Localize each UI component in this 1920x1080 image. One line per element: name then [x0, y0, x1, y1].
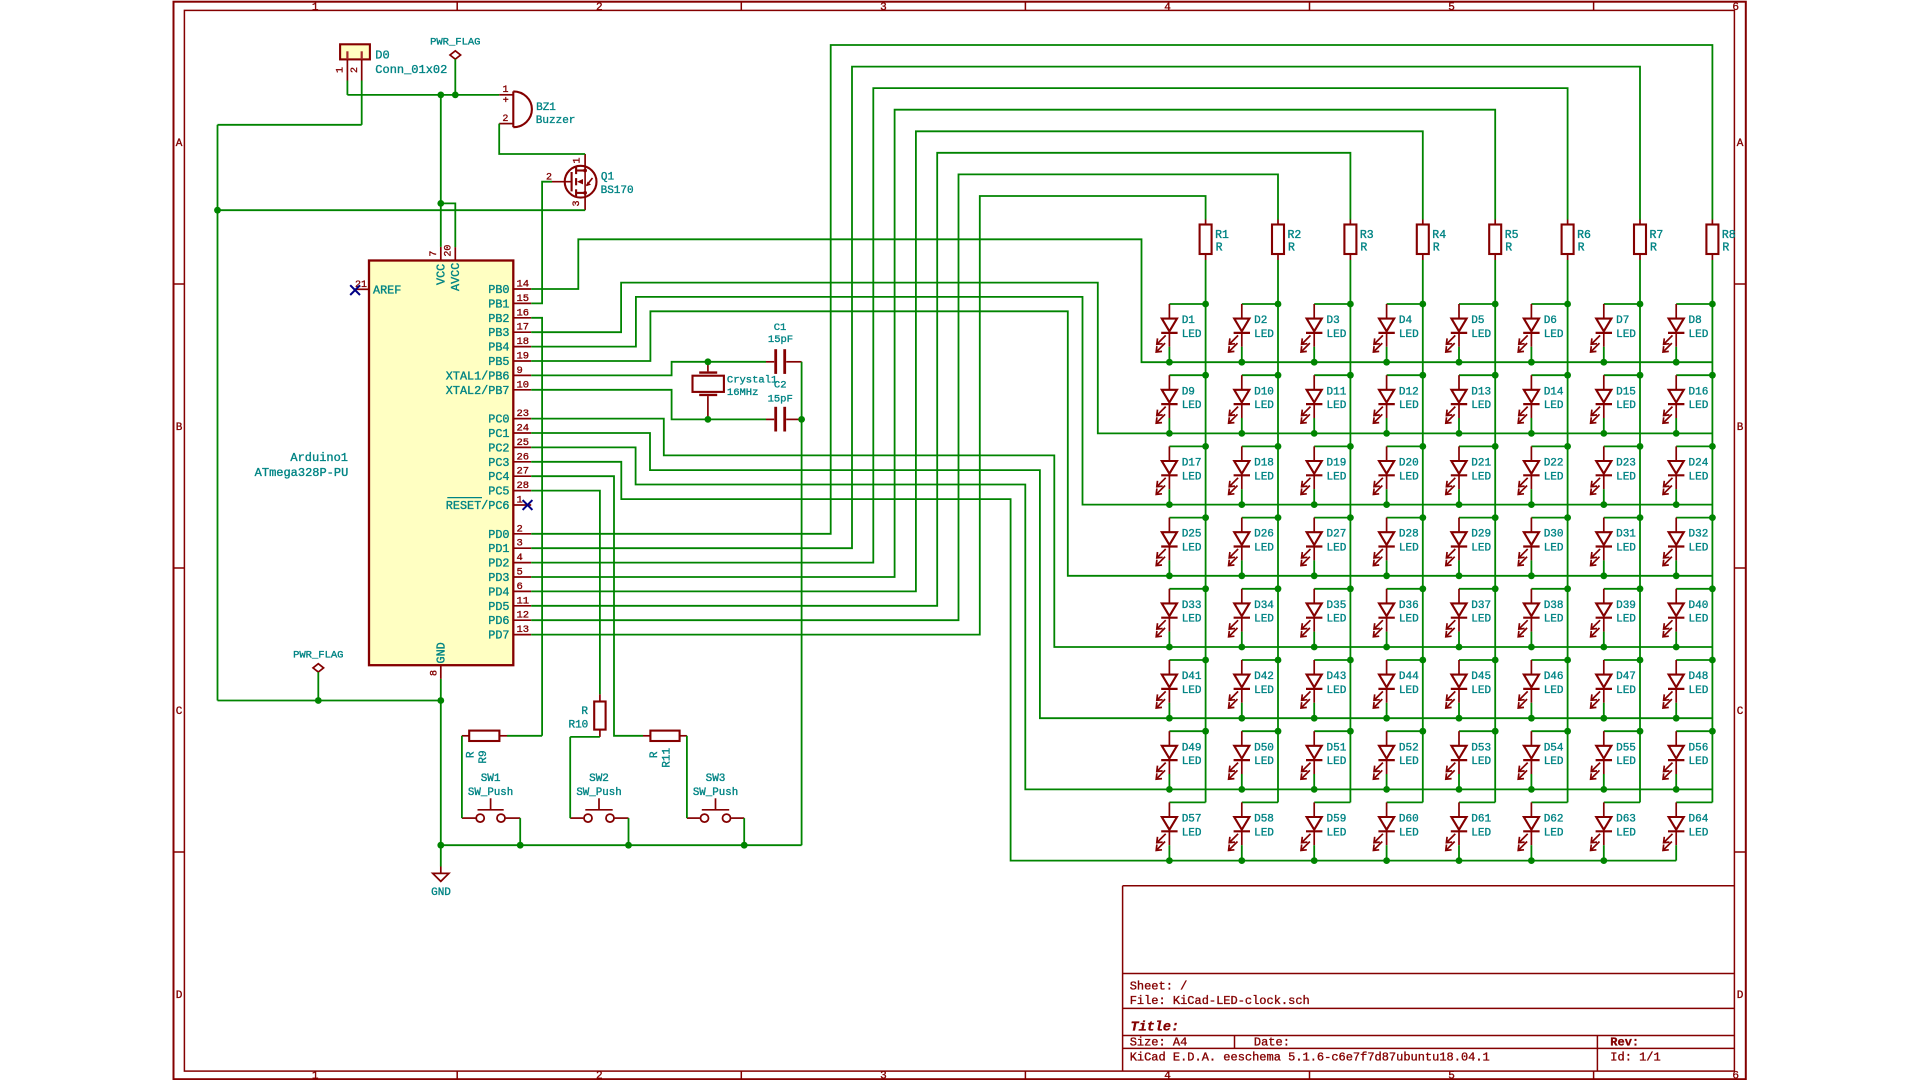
svg-text:LED: LED	[1254, 400, 1274, 412]
svg-text:D11: D11	[1327, 386, 1347, 398]
svg-text:D0: D0	[375, 49, 389, 63]
junction	[1238, 786, 1245, 793]
svg-text:C1: C1	[774, 322, 787, 334]
svg-text:D22: D22	[1544, 458, 1564, 470]
svg-text:R9: R9	[478, 750, 490, 763]
pin 6 PD4	[488, 581, 531, 600]
junction	[1528, 430, 1535, 437]
resistor R8	[1706, 220, 1735, 261]
junction	[1456, 715, 1463, 722]
LED D35	[1301, 585, 1354, 650]
LED D40	[1663, 585, 1716, 650]
svg-text:D18: D18	[1254, 458, 1274, 470]
junction	[1709, 657, 1716, 664]
pin 13 PD7	[488, 624, 531, 643]
svg-text:15: 15	[517, 293, 530, 305]
junction	[1456, 644, 1463, 651]
svg-text:SW_Push: SW_Push	[693, 787, 738, 799]
resistor R1	[1200, 220, 1229, 261]
svg-text:LED: LED	[1399, 614, 1419, 626]
svg-text:LED: LED	[1689, 685, 1709, 697]
svg-text:LED: LED	[1399, 543, 1419, 555]
svg-text:D27: D27	[1327, 529, 1347, 541]
svg-text:D19: D19	[1327, 458, 1347, 470]
svg-text:LED: LED	[1689, 471, 1709, 483]
LED D25	[1156, 514, 1209, 579]
svg-text:D21: D21	[1471, 458, 1491, 470]
wire SW3 to GND rail	[743, 818, 745, 845]
LED D15	[1591, 372, 1644, 437]
svg-text:D29: D29	[1471, 529, 1491, 541]
svg-text:LED: LED	[1399, 756, 1419, 768]
wire PC2 to LED row 7	[531, 447, 1169, 789]
svg-text:PB0: PB0	[488, 283, 509, 297]
junction	[1347, 514, 1354, 521]
junction	[1600, 857, 1607, 864]
svg-text:D3: D3	[1327, 315, 1340, 327]
svg-text:3: 3	[517, 538, 523, 550]
svg-text:15pF: 15pF	[768, 334, 793, 346]
svg-text:C: C	[176, 706, 183, 718]
svg-text:BZ1: BZ1	[536, 102, 556, 114]
capacitor C1 15pF	[766, 322, 802, 374]
svg-text:LED: LED	[1254, 471, 1274, 483]
wire SW1 to GND rail	[519, 818, 521, 845]
wire PD0 to R8	[531, 45, 1712, 534]
junction	[1600, 644, 1607, 651]
wire PD7 to R1	[531, 196, 1205, 635]
svg-text:LED: LED	[1471, 614, 1491, 626]
LED D30	[1518, 514, 1571, 579]
wire PC4 to R11	[531, 476, 643, 736]
buzzer BZ1	[499, 85, 575, 127]
LED D9	[1156, 372, 1209, 437]
svg-text:D2: D2	[1254, 315, 1267, 327]
LED D34	[1229, 585, 1282, 650]
svg-text:3: 3	[572, 200, 583, 206]
wire LED row 4 line	[1169, 575, 1712, 577]
svg-text:LED: LED	[1254, 685, 1274, 697]
svg-text:C2: C2	[774, 380, 787, 392]
wire IC pin8 to GND	[440, 679, 442, 867]
svg-text:R: R	[581, 706, 588, 718]
LED D56	[1663, 728, 1716, 793]
svg-text:GND: GND	[434, 642, 448, 663]
pin 2 PD0	[488, 523, 531, 542]
svg-text:SW_Push: SW_Push	[468, 787, 513, 799]
svg-text:LED: LED	[1182, 543, 1202, 555]
junction	[1456, 786, 1463, 793]
wire PC3 to LED row 8	[531, 462, 1169, 861]
svg-text:D58: D58	[1254, 814, 1274, 826]
svg-text:PD1: PD1	[488, 542, 509, 556]
junction	[1275, 585, 1282, 592]
svg-text:Q1: Q1	[601, 172, 615, 184]
LED D3	[1301, 301, 1354, 366]
junction	[1564, 657, 1571, 664]
svg-text:LED: LED	[1327, 543, 1347, 555]
svg-text:6: 6	[1732, 2, 1739, 14]
svg-text:LED: LED	[1327, 329, 1347, 341]
junction	[1383, 786, 1390, 793]
junction	[1492, 301, 1499, 308]
junction	[437, 697, 444, 704]
svg-text:PB5: PB5	[488, 355, 509, 369]
junction	[1456, 430, 1463, 437]
svg-text:3: 3	[880, 2, 887, 14]
svg-text:LED: LED	[1544, 685, 1564, 697]
svg-text:D64: D64	[1689, 814, 1709, 826]
LED D52	[1373, 728, 1426, 793]
op-amp U1 : IC Arduino1 ATmega328P-PU	[255, 245, 514, 679]
junction	[1238, 644, 1245, 651]
junction	[1238, 359, 1245, 366]
svg-text:LED: LED	[1689, 543, 1709, 555]
svg-text:PD2: PD2	[488, 557, 509, 571]
svg-text:D10: D10	[1254, 386, 1274, 398]
LED D48	[1663, 657, 1716, 722]
svg-text:D23: D23	[1616, 458, 1636, 470]
resistor R2	[1272, 220, 1301, 261]
wire LED column 7	[1639, 260, 1641, 802]
svg-text:LED: LED	[1254, 827, 1274, 839]
svg-text:13: 13	[517, 624, 530, 636]
svg-text:D: D	[176, 990, 183, 1002]
resistor R10	[568, 694, 605, 737]
junction	[1528, 786, 1535, 793]
wire BZ1 pin2 to Q1 drain	[499, 124, 585, 154]
svg-text:File: KiCad-LED-clock.sch: File: KiCad-LED-clock.sch	[1130, 994, 1310, 1008]
svg-text:2: 2	[502, 114, 508, 125]
wire LED column 3	[1349, 260, 1351, 802]
junction	[1673, 644, 1680, 651]
LED D38	[1518, 585, 1571, 650]
junction	[1600, 786, 1607, 793]
svg-text:R6: R6	[1577, 229, 1591, 242]
LED D36	[1373, 585, 1426, 650]
junction	[1456, 572, 1463, 579]
pin 27 PC4	[488, 466, 531, 485]
svg-text:LED: LED	[1182, 614, 1202, 626]
svg-text:R: R	[1433, 242, 1440, 255]
svg-text:R: R	[1288, 242, 1295, 255]
wire XTAL2 to crystal bottom and C2	[531, 390, 766, 420]
wire PWR_FLAG2 to GND net	[218, 700, 441, 702]
resistor R7	[1634, 220, 1663, 261]
svg-text:Date:: Date:	[1254, 1036, 1290, 1050]
svg-text:LED: LED	[1544, 400, 1564, 412]
junction	[1166, 644, 1173, 651]
svg-text:R2: R2	[1288, 229, 1302, 242]
LED D32	[1663, 514, 1716, 579]
junction	[1383, 715, 1390, 722]
pin 26 PC3	[488, 451, 531, 470]
junction	[1238, 715, 1245, 722]
wire R9 right	[507, 735, 542, 737]
junction	[741, 842, 748, 849]
LED D13	[1446, 372, 1499, 437]
LED D61	[1446, 802, 1495, 864]
svg-text:6: 6	[1732, 1071, 1739, 1080]
junction	[1456, 857, 1463, 864]
svg-text:LED: LED	[1471, 756, 1491, 768]
svg-text:1: 1	[336, 67, 347, 73]
svg-text:D8: D8	[1689, 315, 1702, 327]
svg-text:D6: D6	[1544, 315, 1557, 327]
junction	[1166, 501, 1173, 508]
svg-text:R5: R5	[1505, 229, 1519, 242]
svg-text:Title:: Title:	[1131, 1021, 1180, 1036]
svg-text:5: 5	[1448, 1071, 1455, 1080]
LED D11	[1301, 372, 1354, 437]
LED D39	[1591, 585, 1644, 650]
svg-text:Sheet: /: Sheet: /	[1130, 980, 1188, 994]
junction	[1275, 372, 1282, 379]
svg-text:1: 1	[573, 157, 584, 163]
junction	[1311, 430, 1318, 437]
junction	[1238, 501, 1245, 508]
svg-text:D53: D53	[1471, 742, 1491, 754]
junction	[1528, 359, 1535, 366]
junction	[1600, 572, 1607, 579]
svg-text:R4: R4	[1432, 229, 1446, 242]
svg-text:D24: D24	[1689, 458, 1709, 470]
svg-text:PB1: PB1	[488, 297, 509, 311]
svg-text:R: R	[1722, 242, 1729, 255]
junction	[1528, 644, 1535, 651]
wire PC5 to R10	[531, 491, 600, 695]
svg-text:SW2: SW2	[589, 773, 609, 785]
LED D27	[1301, 514, 1354, 579]
LED D12	[1373, 372, 1426, 437]
svg-text:16MHz: 16MHz	[727, 387, 759, 399]
junction	[1166, 857, 1173, 864]
svg-text:LED: LED	[1399, 400, 1419, 412]
svg-text:RESET/PC6: RESET/PC6	[446, 499, 510, 513]
wire D0 pin2 left	[218, 124, 362, 126]
svg-text:D15: D15	[1616, 386, 1636, 398]
junction	[1311, 857, 1318, 864]
junction	[1709, 301, 1716, 308]
LED D29	[1446, 514, 1499, 579]
svg-text:LED: LED	[1689, 614, 1709, 626]
junction	[705, 416, 712, 423]
LED D23	[1591, 443, 1644, 508]
svg-text:2: 2	[350, 67, 361, 73]
resistor R9	[462, 731, 507, 764]
svg-text:14: 14	[517, 279, 530, 291]
svg-text:D4: D4	[1399, 315, 1413, 327]
svg-text:LED: LED	[1182, 329, 1202, 341]
wire R9 left to SW1	[461, 736, 463, 818]
junction	[1492, 585, 1499, 592]
svg-text:LED: LED	[1689, 827, 1709, 839]
svg-text:D1: D1	[1182, 315, 1196, 327]
junction	[1311, 572, 1318, 579]
svg-text:D7: D7	[1616, 315, 1629, 327]
wire LED row 2 line	[1169, 432, 1712, 434]
svg-text:LED: LED	[1544, 614, 1564, 626]
junction	[1564, 585, 1571, 592]
junction	[1275, 514, 1282, 521]
wire AVCC branch to pin20	[441, 203, 456, 247]
wire D0 pin2 down	[361, 81, 363, 125]
LED D5	[1446, 301, 1499, 366]
pin 23 PC0	[488, 408, 531, 427]
LED D2	[1229, 301, 1282, 366]
junction	[1528, 857, 1535, 864]
svg-text:LED: LED	[1689, 329, 1709, 341]
svg-text:PB4: PB4	[488, 341, 509, 355]
wire PB5 to LED row 4	[531, 311, 1169, 576]
LED D8	[1663, 301, 1716, 366]
svg-text:Size: A4: Size: A4	[1130, 1036, 1188, 1050]
junction	[1528, 715, 1535, 722]
LED D63	[1591, 802, 1640, 864]
svg-text:SW3: SW3	[706, 773, 726, 785]
junction	[1166, 786, 1173, 793]
svg-text:19: 19	[517, 351, 530, 363]
svg-text:D55: D55	[1616, 742, 1636, 754]
wire left vertical GND net	[217, 125, 219, 701]
pin 24 PC1	[488, 423, 531, 442]
svg-text:6: 6	[517, 581, 523, 593]
svg-text:LED: LED	[1471, 685, 1491, 697]
junction	[1709, 443, 1716, 450]
title block	[1123, 886, 1735, 1071]
svg-text:LED: LED	[1616, 756, 1636, 768]
svg-text:A: A	[1737, 138, 1744, 150]
junction	[1238, 857, 1245, 864]
junction	[1311, 786, 1318, 793]
junction	[1238, 430, 1245, 437]
LED D59	[1301, 802, 1350, 864]
svg-text:LED: LED	[1544, 543, 1564, 555]
junction	[1564, 514, 1571, 521]
wire PD4 to R4	[531, 131, 1423, 591]
wire LED column 4	[1422, 260, 1424, 802]
svg-text:PB2: PB2	[488, 312, 509, 326]
junction	[1419, 657, 1426, 664]
svg-text:28: 28	[517, 480, 530, 492]
junction	[1419, 585, 1426, 592]
wire R10 bottom	[570, 736, 600, 738]
pin 28 PC5	[488, 480, 531, 499]
pin 5 PD3	[488, 567, 531, 586]
LED D41	[1156, 657, 1209, 722]
junction	[1275, 301, 1282, 308]
svg-text:LED: LED	[1399, 827, 1419, 839]
wire LED row 7 line	[1169, 788, 1712, 790]
svg-text:LED: LED	[1254, 756, 1274, 768]
svg-text:LED: LED	[1254, 329, 1274, 341]
LED D22	[1518, 443, 1571, 508]
resistor R11	[643, 731, 687, 768]
wire PB2 down to R9	[531, 318, 542, 736]
junction	[1202, 443, 1209, 450]
svg-text:SW_Push: SW_Push	[576, 787, 621, 799]
LED D20	[1373, 443, 1426, 508]
svg-text:B: B	[1737, 422, 1744, 434]
junction	[1166, 715, 1173, 722]
wire PB4 to LED row 3	[531, 297, 1169, 505]
svg-text:R3: R3	[1360, 229, 1374, 242]
switch SW3 SW_Push	[687, 773, 744, 822]
LED D57	[1156, 802, 1205, 864]
junction	[1202, 728, 1209, 735]
LED D49	[1156, 728, 1209, 793]
junction	[1709, 728, 1716, 735]
junction	[1492, 657, 1499, 664]
junction	[1600, 501, 1607, 508]
LED D53	[1446, 728, 1499, 793]
svg-text:PD0: PD0	[488, 528, 509, 542]
power flag PWR_FLAG (top)	[430, 37, 480, 95]
svg-text:D48: D48	[1689, 671, 1709, 683]
LED D47	[1591, 657, 1644, 722]
svg-text:D47: D47	[1616, 671, 1636, 683]
junction	[1202, 301, 1209, 308]
junction	[1311, 644, 1318, 651]
svg-text:A: A	[176, 138, 183, 150]
wire GND net to Q1 source	[218, 209, 586, 211]
junction	[1709, 585, 1716, 592]
svg-text:D50: D50	[1254, 742, 1274, 754]
svg-text:D51: D51	[1327, 742, 1347, 754]
svg-text:+: +	[503, 96, 509, 107]
wire D0 pin1 down	[346, 81, 348, 95]
junction	[1419, 514, 1426, 521]
svg-text:D39: D39	[1616, 600, 1636, 612]
svg-text:26: 26	[517, 451, 530, 463]
pin 12 PD6	[488, 610, 531, 629]
svg-text:LED: LED	[1399, 685, 1419, 697]
pin 4 PD2	[488, 552, 531, 571]
svg-text:LED: LED	[1327, 400, 1347, 412]
wire GND rail	[441, 844, 802, 846]
crystal Crystal1 16MHz	[693, 362, 778, 420]
svg-text:XTAL1/PB6: XTAL1/PB6	[446, 369, 510, 383]
wire PC0 to LED row 5	[531, 419, 1169, 647]
svg-text:D14: D14	[1544, 386, 1564, 398]
svg-text:7: 7	[429, 251, 440, 257]
svg-text:D42: D42	[1254, 671, 1274, 683]
svg-text:PD7: PD7	[488, 629, 509, 643]
svg-text:D35: D35	[1327, 600, 1347, 612]
junction	[1492, 372, 1499, 379]
wire PD3 to R5	[531, 110, 1495, 577]
junction	[1347, 585, 1354, 592]
junction	[1637, 728, 1644, 735]
svg-text:D37: D37	[1471, 600, 1491, 612]
wire PB3 to LED row 2	[531, 283, 1169, 434]
junction	[1673, 430, 1680, 437]
svg-text:PB3: PB3	[488, 326, 509, 340]
svg-text:1: 1	[502, 85, 508, 96]
svg-text:D26: D26	[1254, 529, 1274, 541]
junction	[214, 207, 221, 214]
pin 16 PB2	[488, 307, 531, 326]
junction	[1238, 572, 1245, 579]
svg-text:5: 5	[517, 567, 523, 579]
svg-text:Buzzer: Buzzer	[536, 115, 576, 127]
junction	[1564, 443, 1571, 450]
junction	[1600, 359, 1607, 366]
junction	[1637, 585, 1644, 592]
svg-text:PWR_FLAG: PWR_FLAG	[293, 650, 343, 662]
svg-text:PWR_FLAG: PWR_FLAG	[430, 37, 480, 49]
svg-text:PD4: PD4	[488, 585, 509, 599]
